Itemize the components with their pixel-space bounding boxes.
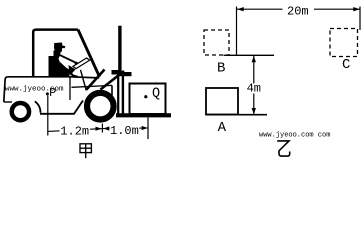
cab frame: [33, 30, 78, 77]
steering column: [81, 70, 87, 91]
driver leg: [63, 67, 78, 77]
svg-text:Q: Q: [152, 86, 160, 101]
front wheel: [87, 93, 114, 120]
dashed box C: [330, 29, 358, 57]
rear fender: [35, 101, 41, 113]
driver knee: [69, 65, 76, 76]
driver hand: [75, 62, 78, 65]
carriage bracket: [117, 72, 132, 76]
load box Q: [130, 84, 166, 115]
dimension line 1.0m: [102, 127, 148, 130]
rear wheel: [12, 103, 29, 120]
extension line Q: [147, 118, 149, 140]
svg-text:C: C: [342, 57, 350, 73]
body front edge: [111, 85, 113, 113]
extension line P: [47, 96, 49, 136]
svg-text:www.jyeoo.com com: www.jyeoo.com com: [259, 132, 330, 140]
mast lower rail right: [122, 76, 124, 114]
point Q dot: [144, 95, 147, 98]
extension line left: [236, 7, 238, 56]
20m dimension line: [237, 8, 360, 10]
fork: [116, 113, 171, 117]
mast: [118, 26, 121, 74]
ground line under A: [206, 114, 267, 116]
driver seat and torso: [49, 50, 70, 77]
svg-text:P: P: [49, 86, 56, 100]
lift diagonal braces: [87, 70, 105, 90]
svg-text:1.0m: 1.0m: [110, 124, 139, 138]
forklift body panel: [4, 77, 112, 102]
svg-text:B: B: [217, 60, 225, 76]
extension line wheel: [101, 124, 103, 133]
svg-text:1.2m: 1.2m: [60, 124, 89, 138]
extension line right: [359, 7, 361, 31]
steering wheel: [73, 58, 90, 69]
svg-text:A: A: [218, 120, 227, 136]
svg-text:4m: 4m: [247, 82, 261, 96]
ground line under B: [224, 54, 275, 56]
point P dot: [46, 92, 49, 95]
label jia (甲): [80, 144, 91, 158]
dimension line 1.2m: [48, 129, 103, 132]
mast foot: [112, 70, 119, 75]
driver arm: [59, 55, 77, 63]
box A: [206, 88, 238, 115]
dashed box B: [204, 30, 229, 55]
svg-text:20m: 20m: [287, 4, 309, 18]
4m dimension arrow: [253, 56, 255, 84]
driver head with cap: [54, 43, 65, 53]
mast lower rail left: [117, 76, 119, 114]
label yi (乙): [277, 141, 290, 156]
underbody line: [40, 101, 83, 114]
